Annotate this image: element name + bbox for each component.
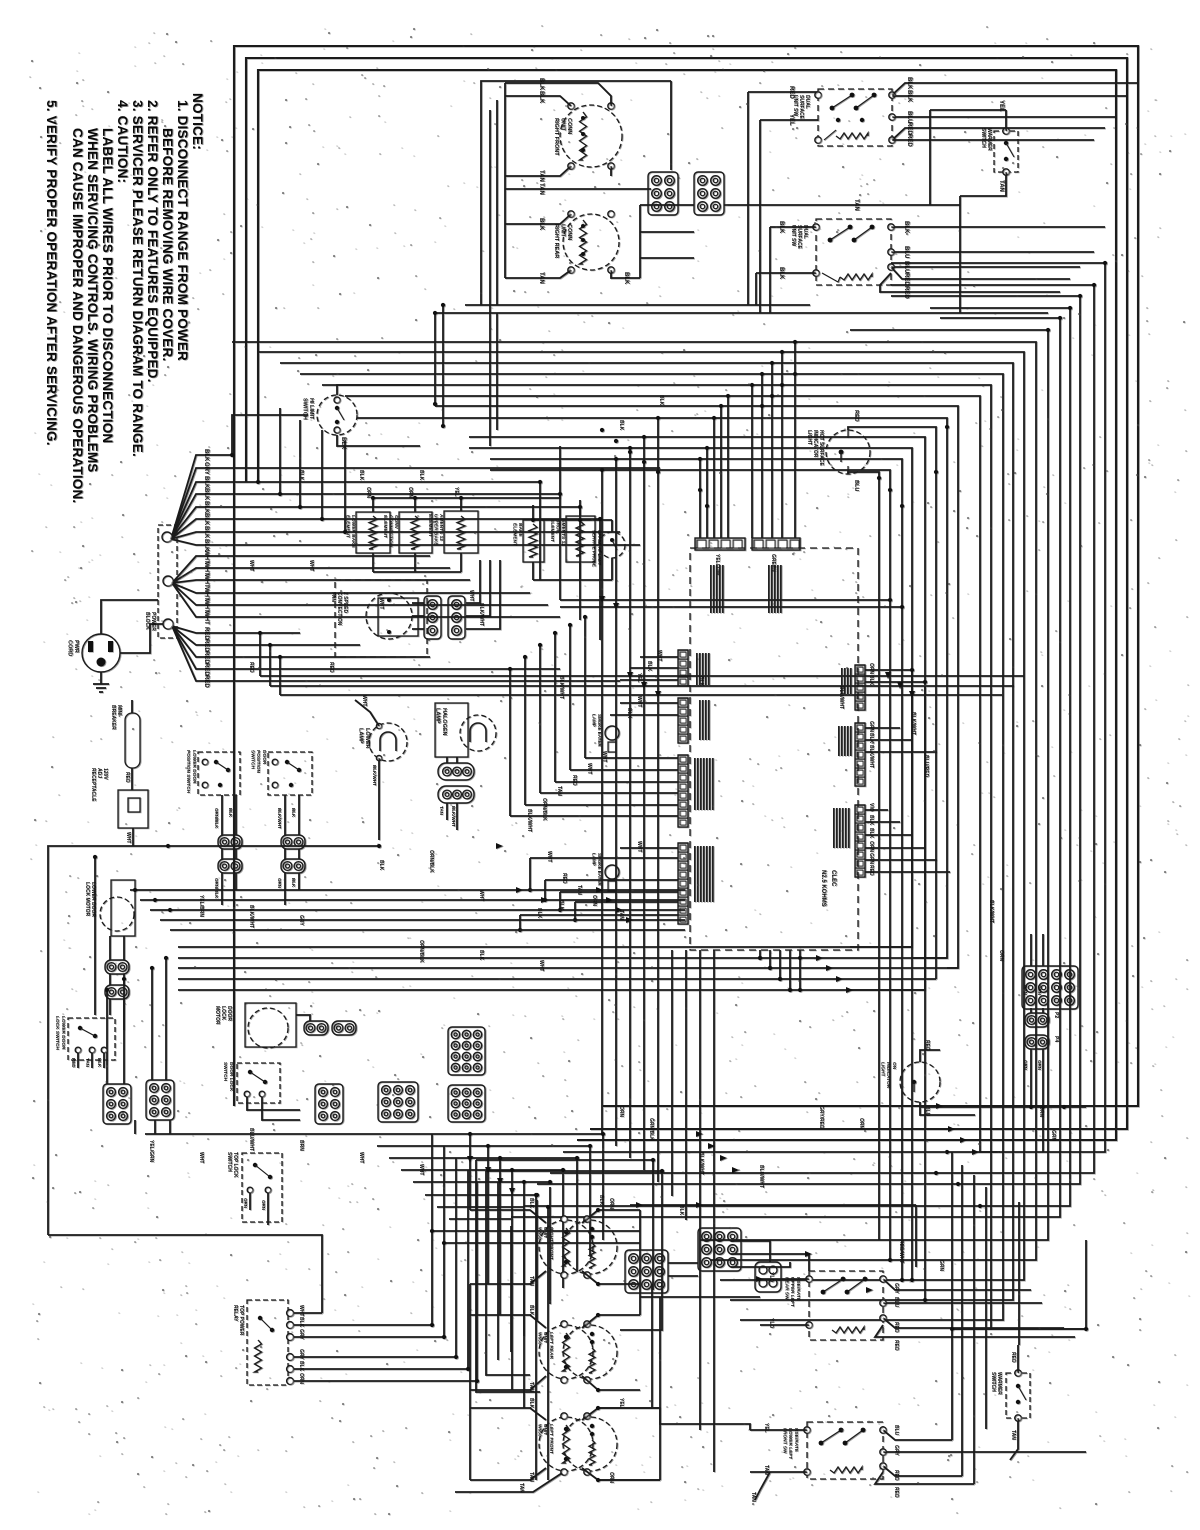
border frame wire 2: [246, 58, 1127, 1129]
wire BLK in: [770, 226, 816, 228]
burner feed risers: [469, 1134, 471, 1210]
wire BLK in lower: [756, 272, 816, 274]
120V adj receptacle: [118, 790, 148, 828]
junction dots on buses: [230, 453, 234, 457]
connector pair C6: [281, 835, 305, 849]
hot surface indicator light: [826, 430, 870, 474]
wire relay riser horizontals: [432, 1230, 640, 1232]
wire BLK/WHT from lower lamp: [378, 758, 380, 840]
ground symbol: [100, 672, 102, 684]
junction node N: [163, 576, 173, 586]
connector block C10 (6 pin): [103, 1084, 131, 1124]
wire strip risers up to bundle: [794, 342, 796, 538]
wire YEL: [760, 119, 818, 121]
wire TAN in: [750, 1471, 807, 1473]
on indicator light: [900, 1062, 940, 1102]
lower door lock switch: [68, 1018, 115, 1060]
connection element: [399, 512, 432, 553]
fan connector P5: [448, 596, 465, 639]
bottom right verticals: [951, 1152, 953, 1440]
wire turns up from fan: [257, 395, 259, 482]
wire TAN from warmer: [1010, 1418, 1018, 1460]
bottom right horizontals: [952, 1328, 1086, 1330]
wire TAN: [724, 204, 960, 206]
board top connector strip yellow: [695, 538, 745, 550]
wire BLK to coil: [505, 96, 571, 106]
connector block C22 (12 pin): [448, 1027, 485, 1075]
junction node L1: [162, 532, 172, 542]
wire right bus lower horizontal: [952, 1328, 1086, 1330]
wire RED out 2: [875, 1325, 1075, 1337]
mini breaker: [125, 713, 140, 768]
wire long mid verticals: [490, 459, 902, 1280]
infinite switch lower left front: [807, 1422, 883, 1479]
small connector C17: [755, 1262, 781, 1292]
wire RED out 2: [892, 139, 1094, 141]
connector block C11 (6 pin): [146, 1080, 174, 1120]
wire TAN bottom: [455, 1473, 562, 1492]
verticals from board bottom: [671, 950, 673, 1196]
lower door position switch: [198, 752, 240, 795]
connector block C24 (9 pin): [378, 1082, 418, 1122]
wire RED to warmer: [1017, 1345, 1019, 1373]
wire verticals from top box: [504, 83, 506, 278]
lower door lock motor: [111, 880, 135, 936]
bottom risers: [602, 1134, 604, 1240]
wire YEL from burner3: [598, 1408, 750, 1430]
wire TAN from coil: [505, 166, 571, 176]
wire conn risers to bus: [106, 990, 108, 1084]
board left pin strip A: [678, 650, 688, 686]
wire RED: [131, 768, 133, 790]
wire: [296, 1015, 310, 1021]
wire RED out 2: [880, 273, 1060, 292]
halogen lamp: [435, 703, 468, 757]
lower door loop wire: [48, 846, 379, 1235]
surface burner LEFT REAR (coil): [539, 1325, 593, 1379]
board left pin strip C: [678, 755, 688, 827]
wires into board left strips: [640, 656, 678, 658]
junction arrowheads: [636, 1202, 643, 1208]
wire right side of burner cluster: [652, 1160, 654, 1290]
wire RED out 2: [875, 1472, 974, 1484]
outer border frame wire 1: [234, 46, 1138, 1106]
2 speed convection fan: [335, 580, 427, 657]
top power relay: [247, 1300, 288, 1385]
wire YEL to warmer: [1005, 110, 1007, 131]
wire BLK out: [892, 83, 1138, 95]
wire RED out: [883, 1466, 962, 1476]
wire to infinite switch (RED): [785, 91, 818, 93]
door lock switch: [237, 1063, 280, 1103]
board internal labels right side: [850, 668, 852, 694]
wire BLK out 2: [892, 95, 1127, 97]
surface unit right front (coil): [560, 105, 622, 167]
surface burner LEFT FRONT (coil): [539, 1417, 593, 1471]
infinite switch upper left rear: [809, 1271, 883, 1340]
wire BLK out: [891, 226, 1105, 228]
wire burner cluster links: [630, 1204, 916, 1206]
wire ORN from burner3: [598, 1479, 660, 1481]
wire: [640, 204, 694, 206]
wire BLU out: [892, 116, 1116, 118]
fan connector P4: [424, 596, 441, 639]
top surface-unit circuit box: [481, 81, 671, 305]
hi limit switch: [317, 395, 357, 435]
wires from bundle down to lower-mid bus: [435, 406, 958, 968]
surface unit right rear (coil): [563, 214, 619, 270]
relay pins: [287, 1310, 294, 1317]
bus wires lower mid: [130, 889, 685, 891]
wire BLK: [505, 214, 571, 224]
warmer switch lower: [1006, 1373, 1030, 1418]
RED wire fan from L2: [172, 626, 300, 633]
connector block C15 (9 pin): [625, 1250, 668, 1293]
smoke eater lamp lower: [605, 865, 619, 879]
wire TAN: [505, 270, 571, 278]
connector pair C12: [304, 1021, 328, 1035]
infinite switch lower (dual surface unit): [816, 219, 891, 285]
wire TAN from warmer: [960, 172, 1006, 196]
lower bake element: [356, 512, 390, 553]
smoke eater lamp upper: [605, 726, 619, 740]
wire links: [48, 1235, 322, 1313]
board top connector strip green: [752, 538, 800, 550]
board right pin strip F: [855, 723, 865, 786]
warmer switch: [994, 131, 1018, 172]
wire connector C20/C21 leads: [1030, 934, 1032, 966]
wire horizontal feeders mid right: [560, 599, 890, 601]
wires out of board right strips: [865, 669, 912, 671]
power cord plug: [82, 634, 120, 672]
wire BLU out 2: [891, 266, 1080, 268]
board ribbon labels: [722, 565, 724, 613]
wire BLU: [920, 1102, 975, 1115]
connector pair C5: [218, 859, 242, 873]
wire WHT to lower lamp: [355, 700, 379, 726]
wire YEL in: [750, 1429, 807, 1431]
right bus wires: [563, 263, 1105, 1152]
door lock motor: [245, 1003, 296, 1047]
connector pair C13: [332, 1021, 356, 1035]
bake element: [523, 520, 544, 562]
wire BLU from HSI: [848, 472, 879, 1240]
lamp connector P3: [438, 763, 474, 780]
power block: [158, 525, 177, 638]
relay wires to risers: [293, 1312, 322, 1314]
connector pair C7: [281, 859, 305, 873]
connector pair C21: [1025, 1035, 1049, 1049]
connector block C18 (12 pin): [1022, 966, 1078, 1009]
door position switch: [268, 752, 312, 795]
meat probe: [599, 532, 625, 558]
right-middle vertical wires: [911, 670, 913, 1280]
wire long horizontals below elements: [260, 675, 1024, 677]
wire element tops bus: [373, 497, 461, 499]
wire RED out: [891, 267, 1070, 279]
board left pin strip D: [678, 843, 688, 924]
connector pair C9: [105, 985, 129, 999]
junction node L2: [163, 619, 173, 629]
wire inner left vertical: [94, 857, 96, 1015]
wire RED out: [892, 128, 1105, 140]
connector pair C4: [218, 835, 242, 849]
connector block P2 (6 pin): [694, 172, 724, 215]
wire BLU out: [883, 1302, 1042, 1304]
border frame wire 3: [258, 70, 1116, 1140]
wire YLO in 2: [760, 1324, 809, 1326]
wire risers from top box to bundle: [434, 313, 436, 404]
surface burner RIGHT FRONT (coil): [539, 1220, 593, 1274]
electronic control board (dashed): [690, 548, 858, 950]
bus wires bottom: [145, 1133, 603, 1135]
board left pin strip B: [678, 698, 688, 743]
wire BLK up to hi-limit: [232, 415, 308, 455]
wire element feeds: [533, 519, 612, 521]
connector block C14 (6 pin): [315, 1084, 343, 1124]
connector pair C20: [1025, 1013, 1049, 1027]
connector pair C8: [105, 960, 129, 974]
wire: [465, 304, 810, 306]
wire C15-C16 links: [668, 1262, 698, 1264]
broil element: [566, 516, 595, 562]
wire WHT from receptacle: [132, 828, 134, 846]
wire BLU out: [883, 1430, 952, 1440]
wire crossing verticals mid: [539, 482, 541, 580]
wire burner feeds: [470, 1210, 546, 1223]
top lock switch: [242, 1153, 282, 1222]
wire lamp leads: [446, 757, 448, 763]
upper bake element: [444, 511, 478, 553]
wire BLU out: [891, 251, 1094, 253]
connector block C23 (9 pin): [448, 1085, 485, 1122]
wire GRY out: [883, 1279, 1031, 1290]
wire YLO in: [760, 1278, 809, 1280]
wire drops left of control board: [601, 470, 603, 1134]
infinite switch upper (dual surface unit): [818, 89, 892, 146]
wire GRY out: [883, 1451, 1086, 1453]
wire from plug to power block: [101, 600, 158, 634]
board internal labels: [708, 653, 710, 685]
connector block P1 (6 pin): [648, 172, 678, 215]
lamp connector P2: [438, 786, 474, 803]
wire on-light horizontal: [921, 1106, 1086, 1108]
connector block C16 (9 pin): [698, 1228, 741, 1271]
WHT wire fan from N: [172, 556, 430, 583]
wire fan leads: [412, 602, 424, 604]
BLK wire fan from L1: [171, 455, 232, 539]
wire from hi-limit: [337, 435, 420, 446]
short steps from board bottom to bus: [759, 950, 761, 958]
board right pin strip G: [855, 805, 865, 877]
wire RED from HSI: [848, 427, 936, 979]
lower lamp: [369, 723, 407, 761]
burner cluster wrap wires: [476, 1160, 540, 1392]
wire RED out: [883, 1318, 1064, 1328]
board right pin strip E: [855, 665, 865, 710]
wire RED: [920, 1050, 940, 1062]
